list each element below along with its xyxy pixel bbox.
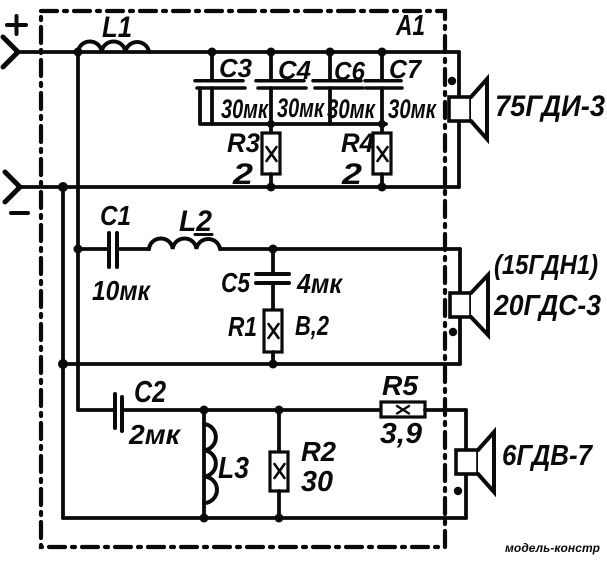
node mid rail left: [58, 359, 68, 369]
resistor R5 (series): [381, 402, 466, 417]
svg-text:C1: C1: [100, 200, 131, 231]
node R4 bottom: [378, 183, 387, 192]
svg-text:L1: L1: [102, 11, 132, 44]
speaker 20ГДС-3 cone: [471, 275, 488, 335]
svg-text:4мк: 4мк: [296, 268, 343, 299]
svg-text:R5: R5: [382, 370, 418, 401]
svg-text:L3: L3: [218, 450, 249, 485]
svg-text:C4: C4: [278, 55, 312, 85]
wire: L2 to mid speaker: [220, 247, 460, 251]
node R3 bottom: [267, 183, 276, 192]
polarity dot (mid speaker): [449, 328, 457, 336]
wire: speaker bus BA3 (bottom): [464, 410, 468, 518]
svg-text:R3: R3: [227, 128, 260, 158]
inductor L2: [149, 239, 220, 249]
polarity dot (top speaker): [448, 77, 456, 85]
svg-text:C6: C6: [334, 56, 365, 86]
svg-text:C7: C7: [389, 54, 422, 84]
wire: + feed down line: [76, 52, 80, 410]
svg-text:A1: A1: [395, 10, 425, 42]
wire: bottom section top: [78, 408, 113, 412]
node C1 branch: [74, 245, 83, 254]
svg-text:C3: C3: [219, 53, 253, 83]
wire: speaker bus BA2 (mid): [458, 249, 462, 364]
resistor R1: [264, 310, 282, 364]
wire: speaker bus BA1 (top): [457, 52, 461, 187]
minus input terminal: [5, 172, 20, 202]
svg-text:30мк: 30мк: [327, 94, 376, 124]
node on cap bus at R3: [267, 120, 275, 128]
svg-text:модель-констр: модель-констр: [505, 541, 600, 555]
svg-text:R4: R4: [341, 128, 374, 158]
minus sign label: [11, 211, 28, 215]
resistor R4: [373, 124, 391, 187]
plus sign label: [7, 16, 26, 34]
speaker 6ГДВ-7 square: [456, 450, 478, 474]
svg-text:30мк: 30мк: [277, 93, 325, 123]
node minus rail branch: [58, 182, 68, 192]
svg-text:30мк: 30мк: [221, 94, 269, 124]
node: C6 tap: [326, 48, 335, 57]
enclosure A1 dash-dot border: [41, 11, 445, 547]
speaker 75ГДИ-3 cone: [471, 79, 487, 139]
plus input terminal: [3, 37, 18, 67]
wire: mid section top: [78, 247, 107, 251]
speaker 75ГДИ-3 square: [449, 97, 471, 121]
svg-text:C5: C5: [221, 267, 250, 298]
svg-text:30: 30: [301, 466, 333, 498]
polarity dot (bottom speaker): [454, 487, 462, 495]
svg-text:30мк: 30мк: [388, 94, 437, 124]
capacitor C5: [256, 249, 289, 310]
speaker 20ГДС-3 square: [450, 293, 471, 317]
resistor R3: [262, 124, 280, 187]
svg-text:R2: R2: [301, 436, 336, 467]
wire: top rail (+): [16, 50, 459, 54]
node: C4 tap: [267, 48, 276, 57]
svg-text:2мк: 2мк: [128, 419, 182, 450]
svg-text:(15ГДН1): (15ГДН1): [494, 249, 598, 280]
svg-text:6ГДВ-7: 6ГДВ-7: [502, 440, 594, 472]
svg-text:C2: C2: [134, 374, 166, 409]
node R1 bottom: [269, 360, 278, 369]
wire: mid section bottom rail: [63, 362, 460, 366]
svg-text:20ГДС-3: 20ГДС-3: [493, 290, 601, 322]
node on cap bus at R4: [378, 120, 386, 128]
node R2 bottom: [275, 514, 284, 523]
resistor R2: [270, 410, 288, 518]
wire: - feed down line: [61, 187, 65, 518]
node C5 branch: [269, 245, 278, 254]
capacitor C4: [256, 52, 306, 124]
node L3 top: [200, 406, 209, 415]
capacitor C6: [313, 52, 363, 124]
svg-text:75ГДИ-3: 75ГДИ-3: [495, 90, 605, 123]
node: C3 tap: [208, 48, 217, 57]
node: junction on top rail for down feed: [74, 48, 83, 57]
svg-text:3,9: 3,9: [380, 418, 422, 450]
capacitor C3: [195, 52, 245, 124]
capacitor C2: [115, 394, 381, 431]
svg-text:В,2: В,2: [295, 310, 329, 341]
speaker 6ГДВ-7 cone: [478, 432, 494, 492]
node R2 top: [275, 406, 284, 415]
wire: capacitor bottom bus: [200, 88, 386, 124]
node: C7 tap: [378, 48, 387, 57]
node L3 bottom: [200, 514, 209, 523]
inductor L3: [204, 410, 217, 519]
svg-text:R1: R1: [228, 311, 257, 342]
capacitor C1: [109, 233, 149, 267]
inductor L1: [78, 42, 149, 52]
svg-text:10мк: 10мк: [92, 275, 152, 306]
wire: bottom rail of top section (-): [18, 185, 459, 189]
wire: bottom section bottom rail: [63, 516, 466, 520]
capacitor C7: [365, 52, 402, 124]
